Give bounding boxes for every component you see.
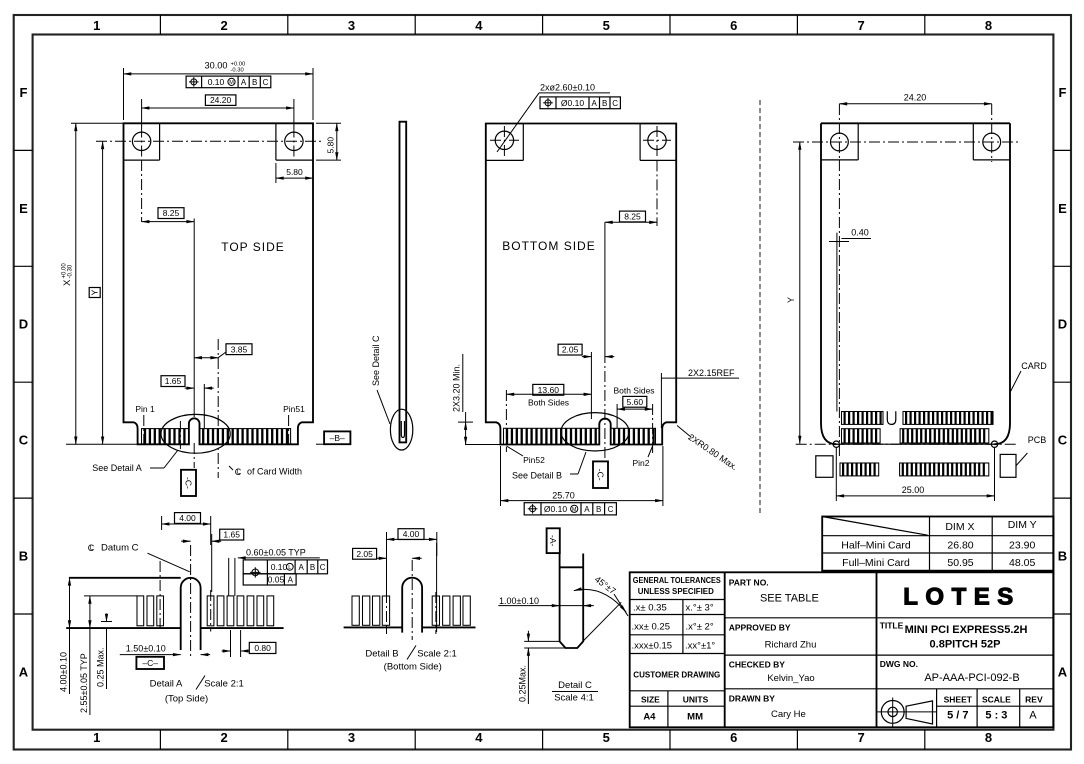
svg-text:2.55±0.05 TYP: 2.55±0.05 TYP bbox=[79, 653, 89, 713]
svg-text:8: 8 bbox=[985, 730, 992, 745]
svg-text:D: D bbox=[19, 317, 28, 332]
label See Detail C rotated with leader bbox=[371, 335, 381, 386]
Y dimension line right view bbox=[793, 141, 800, 143]
svg-text:1.65: 1.65 bbox=[165, 376, 182, 386]
dim 5.80 below right tab bbox=[275, 163, 277, 183]
svg-text:.xx°±1°: .xx°±1° bbox=[685, 641, 715, 652]
pin group centerline mark bbox=[179, 421, 181, 449]
svg-text:Pin51: Pin51 bbox=[283, 404, 305, 414]
svg-text:See Detail A: See Detail A bbox=[92, 463, 142, 473]
svg-text:7: 7 bbox=[857, 18, 864, 33]
right view left mounting tab bbox=[857, 123, 859, 160]
svg-text:CHECKED BY: CHECKED BY bbox=[729, 660, 786, 670]
svg-text:24.20: 24.20 bbox=[904, 93, 927, 103]
detail B indicator ellipse bbox=[561, 413, 629, 451]
right view left hole centerline long bbox=[838, 160, 840, 456]
svg-text:See Detail B: See Detail B bbox=[512, 471, 562, 481]
svg-text:D: D bbox=[1058, 317, 1067, 332]
svg-text:Richard Zhu: Richard Zhu bbox=[765, 640, 817, 651]
feature control frame dia 0.10 M A B C bbox=[524, 503, 616, 515]
detail B pins left group bbox=[352, 596, 359, 625]
svg-text:C: C bbox=[263, 78, 269, 87]
svg-text:A4: A4 bbox=[643, 712, 656, 723]
svg-text:0.25 Max.: 0.25 Max. bbox=[96, 647, 106, 687]
svg-text:4.00±0.10: 4.00±0.10 bbox=[59, 652, 69, 692]
side view edge tip inner lines bbox=[401, 421, 404, 438]
detail C chamfer construction line bbox=[583, 602, 621, 641]
svg-text:A: A bbox=[288, 575, 294, 584]
svg-text:0.40: 0.40 bbox=[851, 228, 869, 238]
svg-text:DIM Y: DIM Y bbox=[1008, 519, 1037, 531]
svg-text:PCB: PCB bbox=[1028, 435, 1047, 445]
detail A pins left group bbox=[137, 596, 144, 626]
svg-text:2: 2 bbox=[220, 18, 227, 33]
dim 3.85 boxed top view bbox=[226, 344, 252, 355]
svg-text:3: 3 bbox=[348, 18, 355, 33]
svg-text:3.85: 3.85 bbox=[231, 344, 248, 354]
svg-text:B: B bbox=[1058, 549, 1067, 564]
top side left hole centerline vertical bbox=[141, 127, 143, 159]
svg-text:0.8PITCH 52P: 0.8PITCH 52P bbox=[930, 638, 1001, 650]
dim 0.80 boxed detail A bbox=[230, 630, 232, 657]
svg-text:-C-: -C- bbox=[184, 477, 194, 489]
svg-text:.xx± 0.25: .xx± 0.25 bbox=[632, 622, 670, 633]
side view card edge outline bbox=[400, 122, 407, 443]
detail B slot centerline bbox=[411, 560, 413, 640]
dim 2.05 boxed bottom view bbox=[558, 344, 582, 355]
svg-text:4: 4 bbox=[475, 18, 483, 33]
dim 13.60 Both Sides boxed bbox=[533, 384, 564, 395]
svg-text:L: L bbox=[288, 565, 291, 571]
third angle projection symbol bbox=[881, 701, 904, 724]
pin52 centerline bbox=[505, 390, 507, 452]
svg-text:CARD: CARD bbox=[1021, 361, 1047, 371]
dim 1.65 boxed detail A bbox=[220, 529, 244, 540]
detail B extension lines bbox=[386, 556, 388, 592]
detail C indicator ellipse bbox=[390, 409, 412, 450]
svg-text:of Card Width: of Card Width bbox=[247, 467, 302, 477]
svg-text:2X3.20 Min.: 2X3.20 Min. bbox=[452, 364, 462, 412]
dim 5.80 vertical right bbox=[316, 122, 341, 124]
svg-text:Pin 1: Pin 1 bbox=[135, 404, 155, 414]
datum C box bottom view bbox=[593, 461, 608, 488]
zone column ticks top bbox=[159, 15, 161, 35]
right view connector key slot bbox=[887, 411, 896, 424]
svg-text:TITLE: TITLE bbox=[880, 621, 904, 631]
svg-text:1.00±0.10: 1.00±0.10 bbox=[499, 596, 539, 606]
zone row ticks left bbox=[14, 149, 33, 151]
svg-text:Detail A: Detail A bbox=[150, 679, 183, 690]
dim 25.00 right view bbox=[835, 448, 837, 501]
svg-text:2X2.15REF: 2X2.15REF bbox=[688, 368, 735, 378]
bottom side hole crosshairs bbox=[490, 139, 519, 141]
svg-text:Half–Mini Card: Half–Mini Card bbox=[841, 540, 911, 552]
right view pad row2 right bbox=[900, 429, 989, 443]
svg-text:SHEET: SHEET bbox=[944, 694, 973, 704]
bottom side left mounting tab bbox=[522, 124, 524, 161]
svg-text:Detail C: Detail C bbox=[558, 680, 592, 691]
top side right mounting hole bbox=[285, 132, 303, 150]
right view left mounting hole bbox=[831, 133, 849, 151]
zone row ticks right bbox=[1053, 149, 1071, 151]
svg-text:TOP SIDE: TOP SIDE bbox=[221, 240, 285, 254]
datum C box detail A bbox=[136, 657, 164, 669]
svg-text:A: A bbox=[1058, 664, 1068, 679]
right view right mounting hole bbox=[983, 133, 1001, 151]
title block column dividers bbox=[724, 572, 726, 727]
svg-text:Ø0.10: Ø0.10 bbox=[561, 98, 584, 108]
svg-text:(Top Side): (Top Side) bbox=[165, 694, 208, 705]
svg-text:A: A bbox=[299, 563, 305, 572]
datum B centerline extension bbox=[316, 443, 324, 445]
right view pad row3 right on pcb bbox=[900, 463, 989, 476]
svg-text:25.00: 25.00 bbox=[902, 485, 925, 495]
dim 8.25 boxed top view bbox=[158, 208, 184, 219]
svg-text:DRAWN BY: DRAWN BY bbox=[729, 694, 776, 704]
svg-text:DIM X: DIM X bbox=[945, 521, 974, 533]
bottom side card outline bbox=[486, 124, 676, 445]
svg-text:REV: REV bbox=[1025, 694, 1043, 704]
dim 0.25 Max left detail A bbox=[101, 621, 112, 623]
extension line 5.60 bbox=[616, 404, 618, 428]
svg-text:F: F bbox=[20, 85, 28, 100]
svg-text:2.05: 2.05 bbox=[562, 345, 579, 355]
right view hole centerline horizontal bbox=[793, 141, 1021, 143]
svg-text:x.°± 3°: x.°± 3° bbox=[686, 603, 714, 614]
svg-text:Datum C: Datum C bbox=[101, 543, 139, 554]
svg-text:5 : 3: 5 : 3 bbox=[985, 710, 1007, 722]
svg-text:50.95: 50.95 bbox=[947, 557, 973, 569]
datum C box below top view bbox=[181, 470, 196, 496]
feature control frame dia 0.10 A B C bbox=[540, 97, 620, 109]
right view pad row2 left bbox=[842, 429, 881, 443]
svg-text:2xø2.60±0.10: 2xø2.60±0.10 bbox=[540, 83, 595, 93]
svg-text:C: C bbox=[608, 505, 614, 514]
top side right mounting tab bbox=[275, 123, 277, 160]
svg-text:Ø0.10: Ø0.10 bbox=[544, 504, 567, 514]
dim 0.25 Max detail C bbox=[524, 640, 559, 642]
top side right hole centerline vertical bbox=[293, 127, 295, 159]
svg-text:A: A bbox=[241, 78, 247, 87]
svg-text:DWG NO.: DWG NO. bbox=[880, 659, 918, 669]
right view left datum circle bbox=[833, 441, 839, 447]
zone column ticks bottom bbox=[159, 730, 161, 750]
svg-text:4: 4 bbox=[475, 730, 483, 745]
svg-text:8.25: 8.25 bbox=[163, 208, 180, 218]
svg-text:LOTES: LOTES bbox=[903, 584, 1021, 611]
svg-text:4.00: 4.00 bbox=[403, 529, 420, 539]
svg-text:30.00: 30.00 bbox=[205, 61, 228, 71]
svg-text:A: A bbox=[584, 505, 590, 514]
svg-text:8.25: 8.25 bbox=[624, 212, 641, 222]
svg-text:M: M bbox=[572, 507, 577, 513]
svg-text:.x°± 2°: .x°± 2° bbox=[686, 622, 714, 633]
extension line pin1 edge bbox=[203, 384, 205, 429]
right view right mounting tab bbox=[972, 123, 974, 160]
svg-text:Y: Y bbox=[786, 297, 796, 303]
svg-text:0.25Max.: 0.25Max. bbox=[518, 665, 528, 702]
svg-text:B: B bbox=[19, 549, 28, 564]
svg-text:MM: MM bbox=[687, 712, 703, 723]
svg-text:B: B bbox=[310, 563, 315, 572]
tolerance column row lines bbox=[630, 599, 725, 601]
svg-text:1.50±0.10: 1.50±0.10 bbox=[126, 644, 166, 654]
svg-text:.xxx±0.15: .xxx±0.15 bbox=[632, 641, 673, 652]
svg-text:Scale 2:1: Scale 2:1 bbox=[417, 649, 457, 660]
dim 1.65 boxed top view bbox=[161, 376, 185, 387]
svg-text:A: A bbox=[19, 664, 29, 679]
svg-text:6: 6 bbox=[730, 18, 737, 33]
svg-text:C: C bbox=[19, 433, 29, 448]
svg-text:PART NO.: PART NO. bbox=[729, 577, 769, 587]
svg-text:Cary He: Cary He bbox=[771, 709, 806, 720]
svg-text:4.00: 4.00 bbox=[179, 513, 196, 523]
svg-text:CUSTOMER DRAWING: CUSTOMER DRAWING bbox=[633, 670, 720, 680]
svg-text:48.05: 48.05 bbox=[1009, 557, 1035, 569]
bottom side gold finger pins bbox=[504, 428, 600, 444]
svg-text:24.20: 24.20 bbox=[210, 95, 232, 105]
svg-text:UNLESS SPECIFIED: UNLESS SPECIFIED bbox=[638, 587, 714, 596]
svg-text:E: E bbox=[1058, 201, 1067, 216]
pin2 centerline bbox=[652, 404, 654, 455]
detail A indicator ellipse bbox=[161, 414, 230, 453]
title block outer frame bbox=[630, 572, 1054, 727]
detail C card edge side profile bbox=[560, 554, 584, 649]
detail C gold plating thick lines bbox=[559, 585, 561, 608]
svg-text:Pin2: Pin2 bbox=[632, 458, 649, 468]
svg-text:B: B bbox=[596, 505, 601, 514]
svg-text:Full–Mini Card: Full–Mini Card bbox=[842, 557, 910, 569]
svg-text:GENERAL TOLERANCES: GENERAL TOLERANCES bbox=[633, 576, 722, 585]
middle column row lines bbox=[725, 617, 877, 619]
dim 8.25 boxed bottom view bbox=[620, 211, 646, 222]
top side hole centerline horizontal bbox=[96, 140, 321, 142]
svg-text:1: 1 bbox=[93, 730, 100, 745]
right view pcb pad left square bbox=[816, 456, 833, 478]
right view right datum circle bbox=[991, 441, 997, 447]
svg-text:Y: Y bbox=[89, 289, 99, 295]
svg-text:A: A bbox=[592, 99, 598, 108]
svg-text:C: C bbox=[1058, 433, 1068, 448]
top side left mounting hole bbox=[132, 132, 150, 150]
svg-text:BOTTOM SIDE: BOTTOM SIDE bbox=[502, 239, 595, 253]
svg-text:SCALE: SCALE bbox=[982, 694, 1011, 704]
dim 4.00 left detail A bbox=[69, 578, 71, 628]
bottom side left mounting hole bbox=[495, 131, 513, 149]
svg-text:–C–: –C– bbox=[142, 658, 158, 668]
datum C slot centerline top view bbox=[193, 219, 195, 418]
right view pcb centerline bbox=[796, 443, 1018, 445]
svg-text:1: 1 bbox=[93, 18, 100, 33]
svg-text:13.60: 13.60 bbox=[538, 385, 560, 395]
sheet scale rev cell dividers bbox=[936, 689, 938, 728]
svg-text:-0.30: -0.30 bbox=[68, 264, 74, 278]
svg-text:2: 2 bbox=[220, 730, 227, 745]
card width centerline top view bbox=[217, 339, 219, 478]
detail A pins right group bbox=[207, 596, 214, 626]
detail A slot centerline bbox=[190, 545, 192, 658]
dim 2.05 boxed detail B bbox=[353, 548, 377, 559]
label X with tolerance rotated bbox=[62, 263, 74, 286]
right view card outline bbox=[821, 123, 1010, 444]
svg-text:B: B bbox=[602, 99, 607, 108]
dim 45 degree arc bbox=[574, 589, 626, 612]
note 2XR0.80 Max with leader bbox=[677, 426, 691, 438]
dim 24.20 boxed bbox=[141, 99, 143, 127]
svg-text:X: X bbox=[62, 279, 73, 286]
svg-text:.x± 0.35: .x± 0.35 bbox=[633, 603, 667, 614]
bottom side right mounting hole bbox=[648, 131, 666, 149]
dim X Y table bbox=[822, 517, 1053, 571]
svg-text:-C-: -C- bbox=[596, 469, 606, 481]
svg-text:5.80: 5.80 bbox=[326, 137, 336, 154]
datum A box bbox=[547, 528, 560, 553]
page split centerline bbox=[759, 100, 761, 515]
svg-text:-A-: -A- bbox=[548, 535, 558, 547]
feature control frame position 0.10 M A B C bbox=[186, 76, 271, 88]
svg-text:Both Sides: Both Sides bbox=[613, 385, 654, 395]
svg-text:See Detail C: See Detail C bbox=[371, 335, 381, 386]
dim 30.00 with tolerance bbox=[123, 68, 125, 120]
svg-text:5: 5 bbox=[603, 730, 610, 745]
svg-text:UNITS: UNITS bbox=[683, 694, 709, 704]
svg-text:MINI PCI EXPRESS5.2H: MINI PCI EXPRESS5.2H bbox=[905, 624, 1028, 636]
svg-text:7: 7 bbox=[857, 730, 864, 745]
svg-text:APPROVED BY: APPROVED BY bbox=[729, 623, 791, 633]
right column row lines bbox=[877, 617, 1054, 619]
svg-text:Kelvin_Yao: Kelvin_Yao bbox=[767, 673, 814, 684]
svg-text:26.80: 26.80 bbox=[947, 540, 973, 552]
svg-text:Pin52: Pin52 bbox=[523, 455, 545, 465]
svg-text:8: 8 bbox=[985, 18, 992, 33]
svg-text:-0.30: -0.30 bbox=[231, 68, 244, 74]
svg-text:A: A bbox=[1029, 710, 1037, 722]
svg-text:1.65: 1.65 bbox=[223, 530, 240, 540]
detail B card edge line bbox=[344, 626, 403, 628]
datum B box bbox=[324, 431, 350, 444]
right view hole centerlines vertical bbox=[838, 104, 840, 160]
detail B card edge profile bbox=[402, 578, 422, 633]
svg-text:SIZE: SIZE bbox=[641, 694, 660, 704]
right view card inner edge line bbox=[836, 247, 838, 412]
svg-text:C: C bbox=[612, 99, 618, 108]
svg-text:SEE TABLE: SEE TABLE bbox=[760, 593, 819, 605]
dim 25.70 bbox=[500, 446, 502, 506]
dim 2X3.20 Min rotated bbox=[458, 421, 473, 423]
extension line 2.05 bottom view bbox=[590, 352, 592, 419]
svg-text:25.70: 25.70 bbox=[552, 491, 575, 501]
svg-text:L: L bbox=[90, 545, 94, 552]
svg-text:0.05: 0.05 bbox=[268, 574, 285, 584]
right view pcb pad right square bbox=[1000, 454, 1016, 477]
svg-text:F: F bbox=[1059, 85, 1067, 100]
dim 4.00 boxed detail A bbox=[175, 513, 201, 524]
dim 4.00 boxed detail B bbox=[398, 529, 424, 540]
right view pad row1 right bbox=[903, 412, 993, 425]
svg-text:5.60: 5.60 bbox=[627, 397, 644, 407]
dim 2.55 left detail A bbox=[84, 595, 137, 597]
svg-text:5 / 7: 5 / 7 bbox=[947, 710, 968, 722]
right view pad row1 left bbox=[842, 412, 884, 425]
svg-text:3: 3 bbox=[348, 730, 355, 745]
right view pad row3 left on pcb bbox=[840, 463, 879, 476]
right view bottom edge bbox=[836, 443, 994, 445]
svg-text:0.60±0.05 TYP: 0.60±0.05 TYP bbox=[246, 548, 306, 558]
svg-text:M: M bbox=[229, 80, 234, 86]
svg-text:Detail B: Detail B bbox=[365, 649, 398, 660]
svg-text:–B–: –B– bbox=[330, 433, 345, 443]
svg-text:Scale 4:1: Scale 4:1 bbox=[554, 693, 594, 704]
feature control frame detail A two rows bbox=[243, 560, 327, 574]
slot centerline bottom view bbox=[604, 222, 606, 352]
svg-text:0.80: 0.80 bbox=[254, 643, 271, 653]
detail B pins right group bbox=[432, 596, 439, 625]
top side left mounting tab bbox=[159, 123, 161, 160]
Y dimension line left boxed bbox=[102, 141, 104, 444]
svg-text:(Bottom Side): (Bottom Side) bbox=[384, 662, 442, 673]
svg-text:5.80: 5.80 bbox=[286, 167, 303, 177]
detail B pin centerlines bbox=[386, 592, 388, 634]
svg-text:B: B bbox=[252, 78, 257, 87]
top side card outline bbox=[124, 123, 314, 444]
detail A card edge profile bbox=[69, 577, 181, 579]
svg-text:Both Sides: Both Sides bbox=[528, 397, 569, 407]
bottom side right mounting tab bbox=[639, 124, 641, 161]
svg-text:0.10: 0.10 bbox=[208, 77, 225, 87]
svg-text:5: 5 bbox=[603, 18, 610, 33]
detail A pin centerlines bbox=[159, 561, 161, 632]
top side gold finger pins bbox=[142, 429, 189, 445]
svg-text:6: 6 bbox=[730, 730, 737, 745]
svg-text:AP-AAA-PCI-092-B: AP-AAA-PCI-092-B bbox=[924, 672, 1019, 684]
svg-text:23.90: 23.90 bbox=[1009, 540, 1035, 552]
svg-text:E: E bbox=[19, 201, 28, 216]
detail A card edge line bbox=[66, 627, 181, 629]
svg-text:2.05: 2.05 bbox=[356, 549, 373, 559]
svg-text:0.10: 0.10 bbox=[271, 562, 288, 572]
svg-text:Scale 2:1: Scale 2:1 bbox=[204, 679, 244, 690]
svg-text:C: C bbox=[320, 563, 326, 572]
X dimension line left bbox=[71, 122, 124, 124]
svg-text:L: L bbox=[237, 469, 241, 476]
